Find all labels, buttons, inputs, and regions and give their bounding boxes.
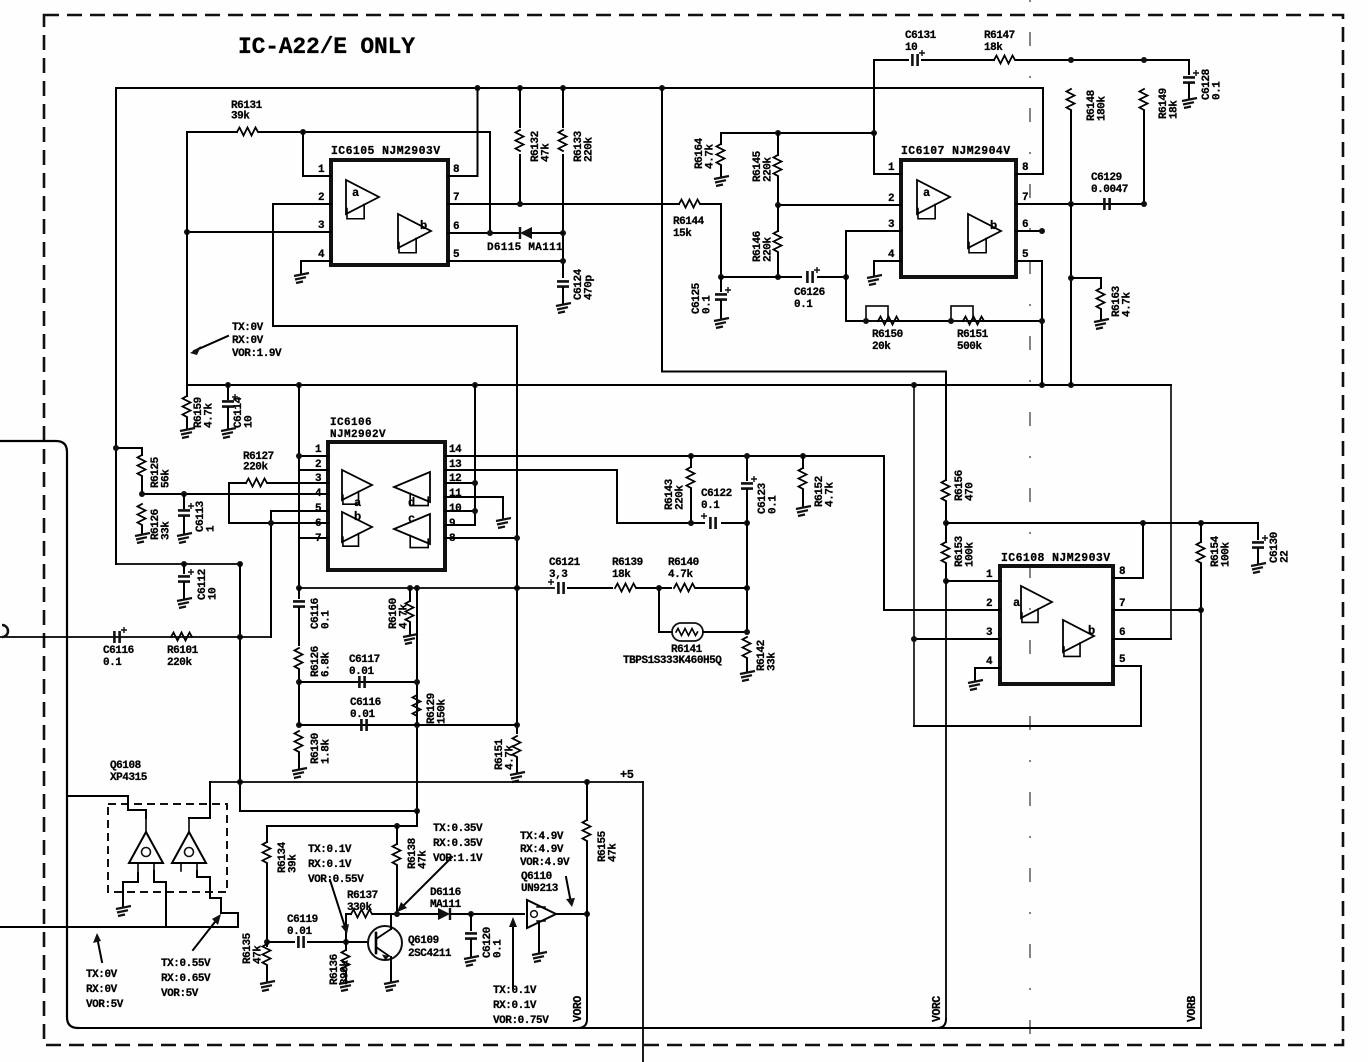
wire VORO drop [578,914,587,1028]
wire IC6108 pin8 [1113,577,1143,579]
wire D6116 right [450,913,524,915]
ground R6152 [796,506,811,516]
node pin5 / C6124 [560,258,566,264]
wire R6152 stem [802,456,804,468]
wire R6155 bottom [586,842,588,914]
resistor R6136 [342,950,350,971]
wire C6123 long drop [746,523,748,632]
wire y133 [721,132,874,134]
wire IC6107 pin2 [778,204,901,206]
op-amp IC6106 d [394,472,430,510]
wire riser x301 [298,385,300,588]
node x417 drop [414,585,420,591]
wire R6126b bottom [298,670,300,725]
wire R6131 left drop x187 [186,132,188,385]
op-amp IC6106 a [342,470,372,510]
svg-text:a: a [352,186,359,200]
node R6152 rowA [800,453,806,459]
node y60 / R6149 [1141,57,1147,63]
wire R6140 right [696,587,747,589]
wire R6145 top stem [777,133,779,155]
ground R6151 [510,772,525,782]
svg-text:VORO: VORO [572,996,585,1022]
arrowhead TX:0.55V [212,914,221,925]
capacitor C6116 0.1 [293,601,305,606]
wire x1171 drop [1170,385,1172,639]
wire C6116a to R6126b [298,608,300,645]
wire R6145 bottom [777,177,779,205]
wire R6136 top [345,942,347,950]
wire IC6106 pin5 [271,510,328,512]
wire R6156 bottom [945,502,947,523]
node riser / y133 [871,130,877,136]
wire R6136 bottom [345,972,347,981]
capacitor C6117 0.01 [359,676,364,688]
wire R6133 bottom [562,155,564,277]
wire R6137 left drop [345,914,347,942]
wire IC6106 pin11 [445,497,503,518]
svg-text:D6116MA111: D6116MA111 [430,887,462,911]
node pin2loop / C6121 row [514,585,520,591]
wire R6164 stem [720,133,722,144]
node x297 / C6117 row [296,679,302,685]
resistor R6164 [717,144,725,165]
op-amp IC6107 b [968,214,1001,253]
node x301 / pin1 [296,453,302,459]
wire Q6108 gnd leg [123,873,138,906]
node x475 pin12 [472,480,478,486]
node x297 / C6116b row [296,722,302,728]
svg-text:14: 14 [449,444,462,456]
ground R6163 [1094,319,1109,329]
svg-text:3: 3 [315,473,322,485]
ground Q6108 [116,906,131,916]
wire +B top rail [117,87,1043,89]
node R6145/R6146/pin2 [775,202,781,208]
wire Q6109 collector [390,914,392,929]
node C6125 junction [718,274,724,280]
node top rail / pin8 riser [475,85,481,91]
resistor R6132 [516,130,524,151]
transistor Q6109 2SC4211 [368,926,402,961]
node x240 / +5 rail [237,779,243,785]
leader VOR:0.75V [512,922,514,988]
wire Q6108 element1 top [67,796,146,818]
wire VORC corner [937,1019,946,1028]
wire IC6106 pin7 [299,537,328,539]
svg-text:4: 4 [888,249,895,261]
node y385 / IC6107 pin5 loop [1039,382,1045,388]
wire C6114 bottom [227,408,229,428]
ground R6130 [292,768,307,778]
op-amp IC6108 b [1063,620,1095,656]
node C6126 / x846 [843,274,849,280]
svg-text:8: 8 [1022,162,1029,174]
capacitor C6124 470p [557,281,569,286]
ground IC6105 pin4 [294,273,309,283]
node y385 / C6114 [225,382,231,388]
wire pin5 drop x271 [270,511,272,637]
op-amp IC6108 box [1000,566,1113,684]
node +5 / R6155 [584,779,590,785]
wire Q6108 out right [166,871,238,927]
capacitor C6122 0.1 [701,513,716,529]
wire Q6110 out [556,913,587,915]
svg-text:2: 2 [888,193,894,205]
wire left input y441 [0,441,78,1028]
wire R6154 top [1200,523,1202,542]
wire R6135 bottom [266,966,268,981]
resistor R6150 zigzag [878,317,899,325]
resistor R6139 [615,584,636,592]
wire x846 up to pin3 [846,231,901,277]
wire R6130 bottom [298,753,300,768]
wire y277 [721,276,801,278]
svg-text:10: 10 [449,503,461,515]
wire C6125 bottom [720,301,722,318]
svg-text:4: 4 [315,488,322,500]
svg-text:VORB: VORB [1186,996,1199,1022]
wire y321 [846,320,1042,322]
wire R6125 top [116,448,142,455]
wire IC6105 pin2 loop [273,204,517,733]
wire IC6107 pin8 riser [1042,88,1044,174]
resistor R6127 [246,479,267,487]
diode D6115 MA111 [520,227,532,239]
svg-text:d: d [408,496,415,510]
wire riser x417 [416,588,418,811]
wire IC6106 pin12 stub [445,482,475,484]
op-amp IC6107 box [901,160,1016,277]
resistor R6153 [942,542,950,563]
node rowB / R6143 [688,520,694,526]
wire IC6108 pin2 [884,609,1000,611]
node R6141 / R6142 [744,629,750,635]
wire R6163 stem [1100,278,1102,288]
node x301 / bottom row [296,585,302,591]
wire C6130 bottom [1257,549,1259,563]
wire IC6105 pin8 [448,175,478,177]
capacitor C6116 0.01 [361,719,366,731]
leader arrow to +B line [194,336,228,351]
wire D6115 riser x490 [489,132,491,233]
wire x417 811-826 [416,811,418,826]
vertical fold dash-dot line [1029,0,1031,1062]
wire C6119 right [308,941,368,943]
node x417 / y811 [414,808,420,814]
wire IC6107 pin8 [1016,173,1043,175]
wire R6134 bottom [266,864,268,942]
wire R6163 bottom [1100,310,1102,319]
wire R6139-R6140 [637,587,671,589]
svg-text:VORC: VORC [931,996,944,1022]
wire y60 left [874,59,908,61]
svg-text:4: 4 [318,249,325,261]
node x240 / R6101 row [237,634,243,640]
wire C6120 bottom [470,940,472,956]
svg-text:6: 6 [1022,219,1028,231]
ground C6120 [464,956,479,966]
svg-text:b: b [1088,624,1095,638]
wire IC6108 pin5 loop [914,666,1141,726]
node y385 / x475 drop [472,382,478,388]
wire R6160 bottom [409,623,411,634]
capacitor C6123 0.1 [741,476,757,489]
ground Q6109 [384,981,399,991]
node y385 / x914 drop [911,382,917,388]
wire IC6107 pin4 [874,260,901,262]
wire IC6105 pin7 [448,203,673,205]
resistor R6135 [263,944,271,965]
svg-text:D6115 MA111: D6115 MA111 [487,242,563,254]
wire IC6108 pin3 [914,638,1000,640]
svg-text:6: 6 [453,221,459,233]
node x1071 / R6163 [1068,275,1074,281]
op-amp IC6105 b [398,214,431,253]
node R6132 / pin7 [517,201,523,207]
node rowB / C6123 [744,520,750,526]
capacitor C6129 0.0047 [1104,198,1109,210]
leader TX:0.55V [193,918,218,950]
wire C6128 stem [1188,60,1190,74]
capacitor C6126 0.1 [807,267,820,283]
wire row C6121 left [299,587,554,589]
transistor Q6108 element 1 [129,818,163,873]
resistor R6130 [295,731,303,752]
wire C6117 row [299,681,417,683]
leader VOR:1.1V [400,857,452,909]
wire R6144 left [662,203,679,205]
node R6153 / pin1 [943,578,949,584]
svg-text:7: 7 [1119,598,1125,610]
node R6134/C6119 row [264,939,270,945]
wire IC6106 pin9 stub [445,524,475,526]
ground C6125 [714,318,729,328]
wire R6146 top [777,205,779,231]
node D6115 anode [487,230,493,236]
leader TX:0V left [97,937,102,962]
arrowhead 4.9V [566,898,575,907]
ground IC6108 pin4 [968,680,983,690]
wire y826 [267,825,417,827]
capacitor C6125 0.1 [715,287,731,300]
wire R6126 bottom [141,526,143,533]
wire IC6105 pin4 [301,260,331,262]
node pin4 row / C6113 [181,491,187,497]
arrowhead VOR:0.55V [341,924,349,934]
wire IC6107 pin7 [1016,203,1144,205]
wire y927 exit left [0,926,166,928]
resistor R6140 [674,584,695,592]
op-amp IC6106 box [328,442,445,570]
resistor R6154 [1197,542,1205,563]
wire IC6106 pin2 [299,469,328,471]
svg-text:2: 2 [315,459,321,471]
op-amp IC6107 a [917,180,950,219]
capacitor C6128 0.1 [1183,70,1199,83]
wire IC6105 pin2 [273,203,331,205]
wire Q6108 input from +5 left leg [189,782,210,818]
wire y914 Q6109-D6116 [373,913,438,915]
svg-text:a: a [1013,596,1020,610]
wire Q6110 gnd leg [538,924,540,952]
resistor R6142 [743,637,751,658]
transistor Q6108 element 2 [172,818,206,871]
wire R6152 bottom [802,490,804,506]
resistor R6126 33k [138,504,146,525]
resistor R6144 [679,200,700,208]
node R6154 / pin7 [1198,607,1204,613]
left edge connector mark [2,625,8,637]
resistor R6138 [393,844,401,865]
node D6116 / C6120 [468,911,474,917]
node R6150 left [863,318,869,324]
op-amp IC6105 box [331,160,448,265]
arrowhead upper TX note [190,346,201,355]
svg-text:7: 7 [315,533,321,545]
ground C6124 [556,303,571,313]
svg-text:b: b [990,219,997,233]
svg-text:6: 6 [315,518,321,530]
wire R6101 row [0,636,271,638]
svg-text:1: 1 [315,444,322,456]
resistor R6101 [171,633,192,641]
svg-text:7: 7 [1022,192,1028,204]
arrowhead TX:0V left [93,933,101,943]
svg-text:1: 1 [888,162,895,174]
node R6151t left [948,318,954,324]
wire R6159 bottom [186,418,188,428]
wire IC6105 pin4 drop [300,261,302,273]
capacitor C6130 22 [1252,535,1268,548]
node pin3 / x187 riser [184,229,190,235]
ground IC6106 pin11 [496,518,511,528]
svg-text:a: a [354,496,361,510]
node rowA / R6143 [688,453,694,459]
svg-text:5: 5 [453,249,460,261]
ground R6160 [403,634,418,644]
ground C6114 [221,428,236,438]
svg-text:a: a [923,186,930,200]
node rowA / C6123 [744,453,750,459]
node x116 / R6125 [113,445,119,451]
wire C6123 top [746,456,748,480]
wire R6164 bottom [720,166,722,176]
wire IC6106 pin8 stub [445,537,517,539]
node VORO [584,911,590,917]
svg-text:c: c [408,512,415,526]
svg-text:IC6108 NJM2903V: IC6108 NJM2903V [1001,552,1111,565]
svg-text:2: 2 [986,598,992,610]
node top rail / long riser x662 [659,85,665,91]
svg-text:IC6105 NJM2903V: IC6105 NJM2903V [331,145,441,158]
wire C6128 bottom [1188,84,1190,98]
node y133 / R6145 [775,130,781,136]
resistor R6147 [994,56,1015,64]
op-amp IC6108 a [1013,586,1052,622]
wire R6132 bottom [519,155,521,204]
ground IC6107 pin4 [867,275,882,285]
wire IC6106 pin3 (R6127 row) [268,482,328,484]
wire R6153 bottom [945,564,947,581]
wire R6159 stem [186,385,188,396]
node y523 / R6154 [1198,520,1204,526]
wire R6146 bottom [777,253,779,277]
node pin6 / pin5 loop [1039,228,1045,234]
diode D6116 MA111 [438,908,450,920]
node x914 / pin3 [911,636,917,642]
wire R6151 bottom [516,758,518,772]
wire D6115 cathode side [532,232,563,234]
resistor R6133 [559,130,567,151]
ground R6135 [260,981,275,991]
resistor R6159 [183,396,191,417]
wire C6116b row [299,724,517,726]
node pin8 / x517 [514,535,520,541]
wire R6131 right [259,131,490,133]
svg-text:TBPS1S333K460H5Q: TBPS1S333K460H5Q [623,655,722,667]
node y385 / C6129 riser [1068,382,1074,388]
wire R6154 bottom [1200,564,1202,610]
wire y564 supply [116,563,240,565]
wire IC6105 pin8 riser [477,88,479,176]
node R6156 / y523 [943,520,949,526]
wire IC6108 pin7 [1113,609,1201,611]
wire R6138 bottom [396,866,398,914]
node Q6109 base node [343,939,349,945]
capacitor C6120 0.1 [465,933,477,938]
svg-text:3: 3 [318,220,325,232]
capacitor C6112 10 [178,569,194,582]
wire VORC drop [945,581,947,1019]
resistor R6146 [774,231,782,252]
resistor R6160 [406,601,414,622]
ground C6113 [177,533,192,543]
wire +5 right drop x643 [642,782,644,1062]
wire R6134 top [266,826,268,842]
capacitor C6114 10 [222,394,238,407]
op-amp IC6106 c [394,512,430,548]
capacitor C6121 3.3 [548,579,564,594]
wire IC6107 pin1 [874,173,901,175]
svg-text:2: 2 [318,192,324,204]
wire C6113 stem [183,494,185,508]
wire R6144 right corner [701,204,721,277]
wire y60 right [1016,59,1189,61]
wire row B right [722,522,747,524]
wire bottom rail [78,1027,1201,1029]
wire +5 rail [210,781,643,783]
wire IC6107 pin3 [846,230,901,232]
resistor R6163 [1097,288,1105,309]
wire IC6106 pin1 [299,455,328,457]
svg-text:TX:0.35VRX:0.35VVOR:1.1V: TX:0.35VRX:0.35VVOR:1.1V [433,823,483,865]
node x404 R6160 [407,585,413,591]
resistor R6137 [351,910,372,918]
resistor R6145 [774,155,782,176]
wire R6133 top [562,88,564,127]
resistor R6126 6.8k [295,648,303,669]
wire IC6105 pin3 [187,231,331,233]
wire y60 mid [922,59,994,61]
capacitor C6119 0.01 [298,936,303,948]
node y564 corner [237,561,243,567]
svg-text:3: 3 [888,219,895,231]
resistor R6131 [237,128,258,136]
thermistor R6141 TBPS1S333K460H5Q [672,623,703,641]
wire IC6108 pin4 drop [974,668,976,680]
node pin7 / R6149 [1141,201,1147,207]
